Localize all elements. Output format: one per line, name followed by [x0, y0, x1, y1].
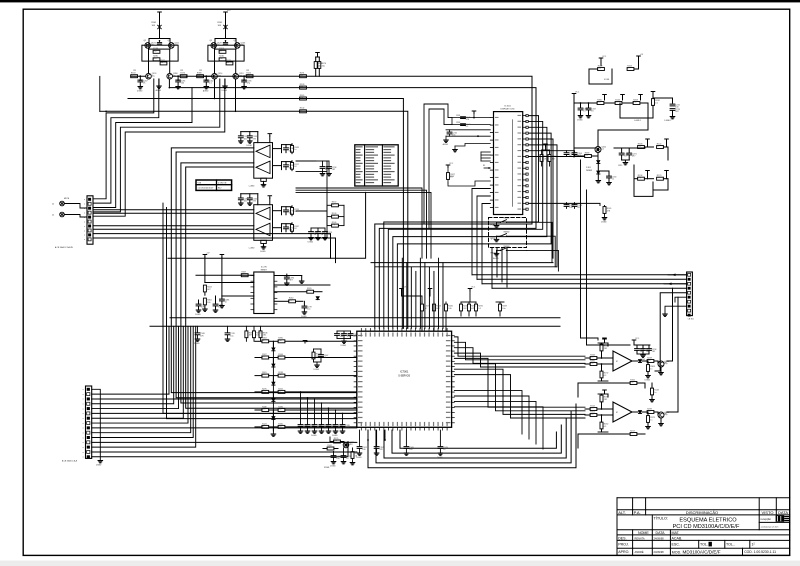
svg-text:assinaturas um mm: assinaturas um mm: [761, 526, 779, 529]
svg-text:1n: 1n: [353, 336, 355, 338]
svg-text:10u: 10u: [262, 409, 265, 411]
svg-text:2K2: 2K2: [300, 86, 303, 88]
svg-text:DGND: DGND: [341, 345, 347, 347]
svg-text:1n: 1n: [219, 50, 221, 52]
svg-text:AGND: AGND: [443, 143, 449, 146]
svg-text:L-GND: L-GND: [249, 186, 255, 188]
svg-text:ESQUEMA ELETRICO: ESQUEMA ELETRICO: [679, 518, 737, 524]
svg-text:1n: 1n: [225, 302, 227, 304]
svg-text:0.1: 0.1: [327, 447, 330, 449]
svg-text:47p: 47p: [638, 177, 641, 179]
svg-text:0.1: 0.1: [300, 110, 303, 112]
svg-text:x: x: [84, 226, 85, 228]
svg-text:DGND: DGND: [194, 343, 200, 345]
svg-text:0.1: 0.1: [332, 204, 335, 206]
svg-text:ACAB.: ACAB.: [672, 536, 683, 540]
svg-text:x: x: [83, 457, 84, 459]
svg-text:10u: 10u: [317, 427, 320, 429]
svg-text:DGND: DGND: [437, 457, 443, 459]
svg-text:x: x: [83, 447, 84, 449]
svg-text:0.1: 0.1: [466, 126, 469, 128]
svg-text:DGND: DGND: [311, 435, 317, 437]
svg-text:TÍTULO:: TÍTULO:: [654, 517, 669, 521]
svg-text:10u: 10u: [336, 458, 339, 460]
svg-text:DGND: DGND: [260, 251, 266, 253]
svg-text:24/09/98: 24/09/98: [654, 550, 665, 554]
svg-text:24/09/98: 24/09/98: [654, 536, 665, 540]
svg-text:x: x: [84, 204, 85, 206]
svg-text:L-GND: L-GND: [249, 248, 255, 250]
svg-text:10u: 10u: [332, 215, 335, 217]
svg-text:1 2 03 04 05 06 07: 1 2 03 04 05 06 07: [198, 188, 214, 190]
svg-text:47p: 47p: [630, 382, 633, 384]
svg-text:MUTE: MUTE: [64, 198, 70, 200]
svg-text:0.1: 0.1: [209, 83, 212, 85]
svg-text:VCC: VCC: [449, 163, 454, 165]
svg-text:SW302: SW302: [504, 232, 510, 234]
svg-text:100: 100: [207, 302, 210, 304]
svg-text:AGND: AGND: [640, 358, 646, 361]
svg-text:DES.: DES.: [618, 536, 626, 540]
svg-text:AGND: AGND: [203, 90, 209, 93]
svg-text:10u: 10u: [340, 336, 343, 338]
svg-text:VCC: VCC: [471, 287, 476, 289]
svg-text:47p: 47p: [452, 135, 455, 137]
svg-text:x: x: [84, 212, 85, 214]
svg-text:x: x: [84, 235, 85, 237]
svg-text:D 301: D 301: [586, 167, 591, 169]
svg-text:4K7: 4K7: [552, 158, 555, 160]
svg-text:IC7001: IC7001: [400, 370, 409, 374]
svg-text:47p: 47p: [322, 65, 325, 67]
svg-text:DGND: DGND: [330, 466, 336, 468]
svg-text:S1: S1: [483, 165, 485, 167]
svg-text:PROJ.: PROJ.: [618, 543, 629, 547]
svg-text:ZENER: ZENER: [586, 170, 593, 172]
svg-text:x: x: [83, 452, 84, 454]
svg-text:x: x: [83, 404, 84, 406]
svg-text:D ON / IN: D ON / IN: [218, 183, 227, 185]
svg-text:DGND: DGND: [301, 316, 307, 318]
svg-text:4K7: 4K7: [590, 408, 593, 410]
svg-text:1n: 1n: [583, 111, 585, 113]
svg-text:RENATA: RENATA: [635, 536, 645, 540]
svg-text:x: x: [83, 428, 84, 430]
svg-text:2K2: 2K2: [633, 102, 636, 104]
svg-text:C301: C301: [456, 115, 460, 117]
svg-text:PCI CD MD3100A/C/D/E/F: PCI CD MD3100A/C/D/E/F: [673, 524, 740, 530]
svg-text:2K2: 2K2: [604, 399, 607, 401]
svg-text:MOD.: MOD.: [672, 550, 681, 554]
svg-text:4K7: 4K7: [590, 357, 593, 359]
svg-text:100: 100: [300, 75, 303, 77]
svg-text:APRO.: APRO.: [618, 550, 629, 554]
svg-text:DGND: DGND: [137, 91, 143, 93]
svg-text:47p: 47p: [332, 224, 335, 226]
svg-text:0.1: 0.1: [601, 148, 604, 150]
svg-text:RESET: RESET: [261, 269, 268, 271]
svg-text:1n: 1n: [294, 211, 296, 213]
svg-text:C315: C315: [618, 165, 622, 167]
svg-text:4K7: 4K7: [632, 156, 635, 158]
svg-text:4K7: 4K7: [249, 335, 252, 337]
svg-text:4K7: 4K7: [278, 356, 281, 358]
svg-text:2K2: 2K2: [332, 169, 335, 171]
svg-text:DGND: DGND: [308, 242, 314, 244]
svg-text:100: 100: [646, 351, 649, 353]
svg-text:DGND: DGND: [332, 435, 338, 437]
svg-text:10u: 10u: [230, 335, 233, 337]
svg-text:C302: C302: [456, 122, 460, 124]
svg-text:SW301: SW301: [504, 218, 510, 220]
svg-text:MD3100A/C/D/E/F: MD3100A/C/D/E/F: [683, 550, 721, 555]
svg-text:4K7: 4K7: [436, 308, 439, 310]
svg-text:P.A.: P.A.: [634, 510, 641, 515]
svg-text:1n: 1n: [314, 234, 316, 236]
svg-text:4K7: 4K7: [207, 289, 210, 291]
svg-text:DGND: DGND: [577, 120, 583, 122]
svg-text:1n: 1n: [346, 458, 348, 460]
svg-text:0.1: 0.1: [289, 300, 292, 302]
svg-text:SW303: SW303: [504, 246, 510, 248]
svg-text:DGND: DGND: [314, 369, 320, 371]
svg-text:4K7: 4K7: [615, 102, 618, 104]
svg-text:100: 100: [569, 207, 572, 209]
svg-text:2K2: 2K2: [604, 348, 607, 350]
svg-text:DISPLAY / LED: DISPLAY / LED: [501, 108, 515, 111]
svg-text:x: x: [84, 221, 85, 223]
svg-text:L-GND 1: L-GND 1: [634, 120, 641, 122]
svg-text:4K7: 4K7: [290, 280, 293, 282]
svg-text:x: x: [84, 239, 85, 241]
svg-text:x: x: [83, 418, 84, 420]
svg-text:DISCRIMINAÇÃO: DISCRIMINAÇÃO: [686, 510, 718, 515]
svg-text:x: x: [83, 442, 84, 444]
svg-text:0.1: 0.1: [478, 308, 481, 310]
svg-text:100: 100: [262, 374, 265, 376]
svg-text:0.1: 0.1: [657, 146, 660, 148]
svg-text:x: x: [84, 230, 85, 232]
svg-text:DGND: DGND: [246, 145, 252, 147]
svg-text:V IN: V IN: [198, 183, 202, 185]
svg-text:C-GND 1: C-GND 1: [664, 120, 671, 122]
svg-text:IC 270: IC 270: [261, 267, 268, 269]
svg-text:x: x: [83, 399, 84, 401]
svg-text:S-SERVOS: S-SERVOS: [398, 376, 410, 378]
svg-text:47p: 47p: [247, 83, 250, 85]
svg-text:100: 100: [338, 427, 341, 429]
svg-text:DGND: DGND: [195, 314, 201, 316]
svg-text:100: 100: [590, 363, 593, 365]
svg-text:A CN 3-EA CC DA UN: A CN 3-EA CC DA UN: [55, 246, 73, 249]
svg-text:x: x: [83, 437, 84, 439]
svg-text:0.1: 0.1: [604, 375, 607, 377]
svg-text:2K2: 2K2: [638, 146, 641, 148]
svg-text:DGND: DGND: [96, 465, 102, 467]
svg-text:DGND: DGND: [601, 222, 607, 224]
svg-text:ALT.: ALT.: [618, 510, 626, 515]
svg-text:100: 100: [448, 308, 451, 310]
svg-text:100: 100: [590, 414, 593, 416]
svg-text:IC-301: IC-301: [604, 79, 609, 81]
svg-text:x: x: [83, 432, 84, 434]
svg-text:10u: 10u: [307, 309, 310, 311]
svg-text:1n: 1n: [262, 425, 264, 427]
svg-text:1n: 1n: [443, 449, 445, 451]
svg-text:2K2: 2K2: [153, 50, 156, 52]
svg-text:VCC: VCC: [635, 338, 640, 340]
svg-text:VISTO: VISTO: [762, 510, 774, 515]
svg-text:10u: 10u: [502, 308, 505, 310]
svg-text:1n: 1n: [262, 340, 264, 342]
svg-text:x: x: [83, 423, 84, 425]
svg-text:ESC.: ESC.: [672, 543, 680, 547]
svg-text:COD. 1.00.5230.1.11: COD. 1.00.5230.1.11: [744, 550, 776, 554]
svg-text:DGND: DGND: [356, 457, 362, 459]
svg-text:x: x: [83, 394, 84, 396]
svg-text:B12: B12: [218, 188, 221, 190]
svg-text:A CN 3-EA CC A-E: A CN 3-EA CC A-E: [62, 460, 78, 463]
svg-text:1n: 1n: [294, 149, 296, 151]
svg-text:2K2: 2K2: [463, 308, 466, 310]
svg-text:10u: 10u: [152, 75, 155, 77]
svg-text:x: x: [83, 413, 84, 415]
svg-text:IC 301: IC 301: [504, 106, 511, 108]
svg-text:VCC: VCC: [575, 92, 580, 94]
svg-text:0.1: 0.1: [655, 102, 658, 104]
svg-text:AGND: AGND: [493, 257, 499, 260]
svg-text:2K2: 2K2: [263, 335, 266, 337]
svg-text:10u: 10u: [598, 68, 601, 70]
svg-text:1n: 1n: [650, 419, 652, 421]
svg-text:1n: 1n: [650, 368, 652, 370]
svg-text:0.1: 0.1: [160, 62, 163, 64]
svg-text:2K2: 2K2: [675, 111, 678, 113]
svg-text:10u: 10u: [585, 155, 588, 157]
svg-text:recepção: recepção: [761, 518, 772, 521]
svg-text:10u: 10u: [409, 449, 412, 451]
svg-text:0.1: 0.1: [278, 390, 281, 392]
svg-text:47p: 47p: [278, 409, 281, 411]
svg-text:100: 100: [244, 200, 247, 202]
svg-text:VCC: VCC: [227, 10, 232, 12]
svg-text:DGND: DGND: [645, 380, 651, 382]
svg-text:100: 100: [244, 138, 247, 140]
svg-text:2K2: 2K2: [652, 351, 655, 353]
svg-text:X2001: X2001: [324, 467, 329, 469]
svg-text:VCC: VCC: [602, 56, 607, 58]
svg-text:100: 100: [362, 449, 365, 451]
svg-text:2K2: 2K2: [349, 444, 352, 446]
svg-text:0.1: 0.1: [604, 426, 607, 428]
svg-text:100: 100: [181, 83, 184, 85]
svg-text:47p: 47p: [347, 336, 350, 338]
svg-text:TOL..: TOL..: [726, 543, 735, 547]
svg-text:1n: 1n: [612, 179, 614, 181]
svg-text:R307: R307: [450, 176, 454, 178]
svg-text:1n: 1n: [654, 392, 656, 394]
svg-text:2K2: 2K2: [577, 207, 580, 209]
svg-text:DATA: DATA: [778, 510, 788, 515]
svg-text:2K2: 2K2: [278, 374, 281, 376]
svg-text:TOL.: TOL.: [700, 543, 708, 547]
svg-text:x: x: [83, 408, 84, 410]
svg-text:1n: 1n: [627, 68, 629, 70]
svg-text:x: x: [84, 199, 85, 201]
svg-text:CN 301: CN 301: [688, 319, 694, 321]
svg-text:1n: 1n: [324, 427, 326, 429]
svg-text:x: x: [83, 389, 84, 391]
svg-text:100: 100: [303, 427, 306, 429]
